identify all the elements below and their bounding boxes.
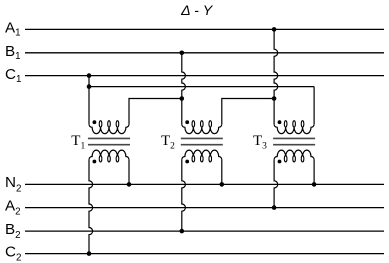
svg-text:A2: A2	[5, 197, 21, 217]
svg-text:Δ - Y: Δ - Y	[180, 3, 214, 19]
svg-text:T2: T2	[161, 133, 175, 151]
junction T3 secondary left / A2	[272, 205, 277, 210]
svg-text:T3: T3	[253, 133, 267, 151]
line B1	[25, 52, 384, 54]
junction T2 secondary right / N2	[220, 182, 225, 187]
transformer T3 secondary winding	[274, 150, 314, 160]
transformer T1 core	[88, 138, 130, 144]
wire delta C-phase: T3 secondary-right return to C1/T1 left	[89, 86, 314, 88]
junction T2 secondary left / B2	[180, 229, 185, 234]
wire T1 primary right lead to T2 left (node B)	[129, 99, 182, 125]
transformer T3 secondary polarity dot	[278, 160, 282, 164]
svg-text:C1: C1	[5, 66, 21, 85]
wire T3 primary left lead from A1 with hops	[274, 29, 278, 124]
transformer T3 primary polarity dot	[278, 120, 282, 124]
svg-text:N2: N2	[5, 174, 21, 194]
line A2	[25, 207, 384, 209]
wire T2 primary right lead to T3 left (node A)	[222, 99, 274, 125]
junction T3 secondary right / N2	[312, 182, 317, 187]
svg-text:C2: C2	[5, 243, 21, 263]
transformer T1 primary polarity dot	[93, 120, 97, 124]
node B1 / T2 primary junction	[180, 51, 185, 56]
transformer T1 secondary winding	[89, 150, 129, 160]
transformer T2 core	[181, 138, 223, 144]
wire T1 primary left lead from C1	[88, 76, 90, 125]
transformer T2 primary winding	[182, 124, 222, 134]
junction T1 secondary left / C2	[87, 251, 92, 256]
wire T3 secondary right lead to N2	[313, 160, 315, 185]
junction T1 primary right / T2 primary left	[180, 96, 185, 101]
transformer T2 primary polarity dot	[185, 120, 189, 124]
transformer T1 primary winding	[89, 124, 129, 134]
wire T2 secondary right lead to N2	[221, 160, 223, 185]
transformer T3 core	[273, 138, 315, 144]
node A1 / T3 primary junction	[272, 27, 277, 32]
wire T1 secondary right lead to N2	[128, 160, 130, 185]
node C1 / T1 primary junction	[87, 73, 92, 78]
transformer T1 secondary polarity dot	[93, 160, 97, 164]
line C1	[25, 75, 384, 77]
junction T1 secondary right / N2	[127, 182, 132, 187]
line A1	[25, 28, 384, 30]
line B2	[25, 230, 384, 232]
line N2	[25, 183, 384, 185]
svg-text:B2: B2	[5, 221, 21, 241]
junction delta return wire / T1 primary left	[87, 84, 92, 89]
wire T3 secondary left lead to A2 with hop	[274, 160, 278, 208]
wire T1 secondary left lead to C2 with hops	[89, 160, 93, 254]
svg-text:A1: A1	[5, 20, 21, 39]
junction T2 primary right / T3 primary left	[272, 96, 277, 101]
wire T2 secondary left lead to B2 with hops	[182, 160, 186, 232]
wire T2 primary left lead from B1 with hops	[182, 53, 186, 124]
svg-text:B1: B1	[5, 43, 21, 62]
transformer T3 primary winding	[274, 124, 314, 134]
line C2	[25, 253, 384, 255]
transformer T2 secondary winding	[182, 150, 222, 160]
wire T3 primary right lead from delta return wire	[313, 87, 315, 125]
svg-text:T1: T1	[71, 133, 85, 151]
transformer T2 secondary polarity dot	[185, 160, 189, 164]
